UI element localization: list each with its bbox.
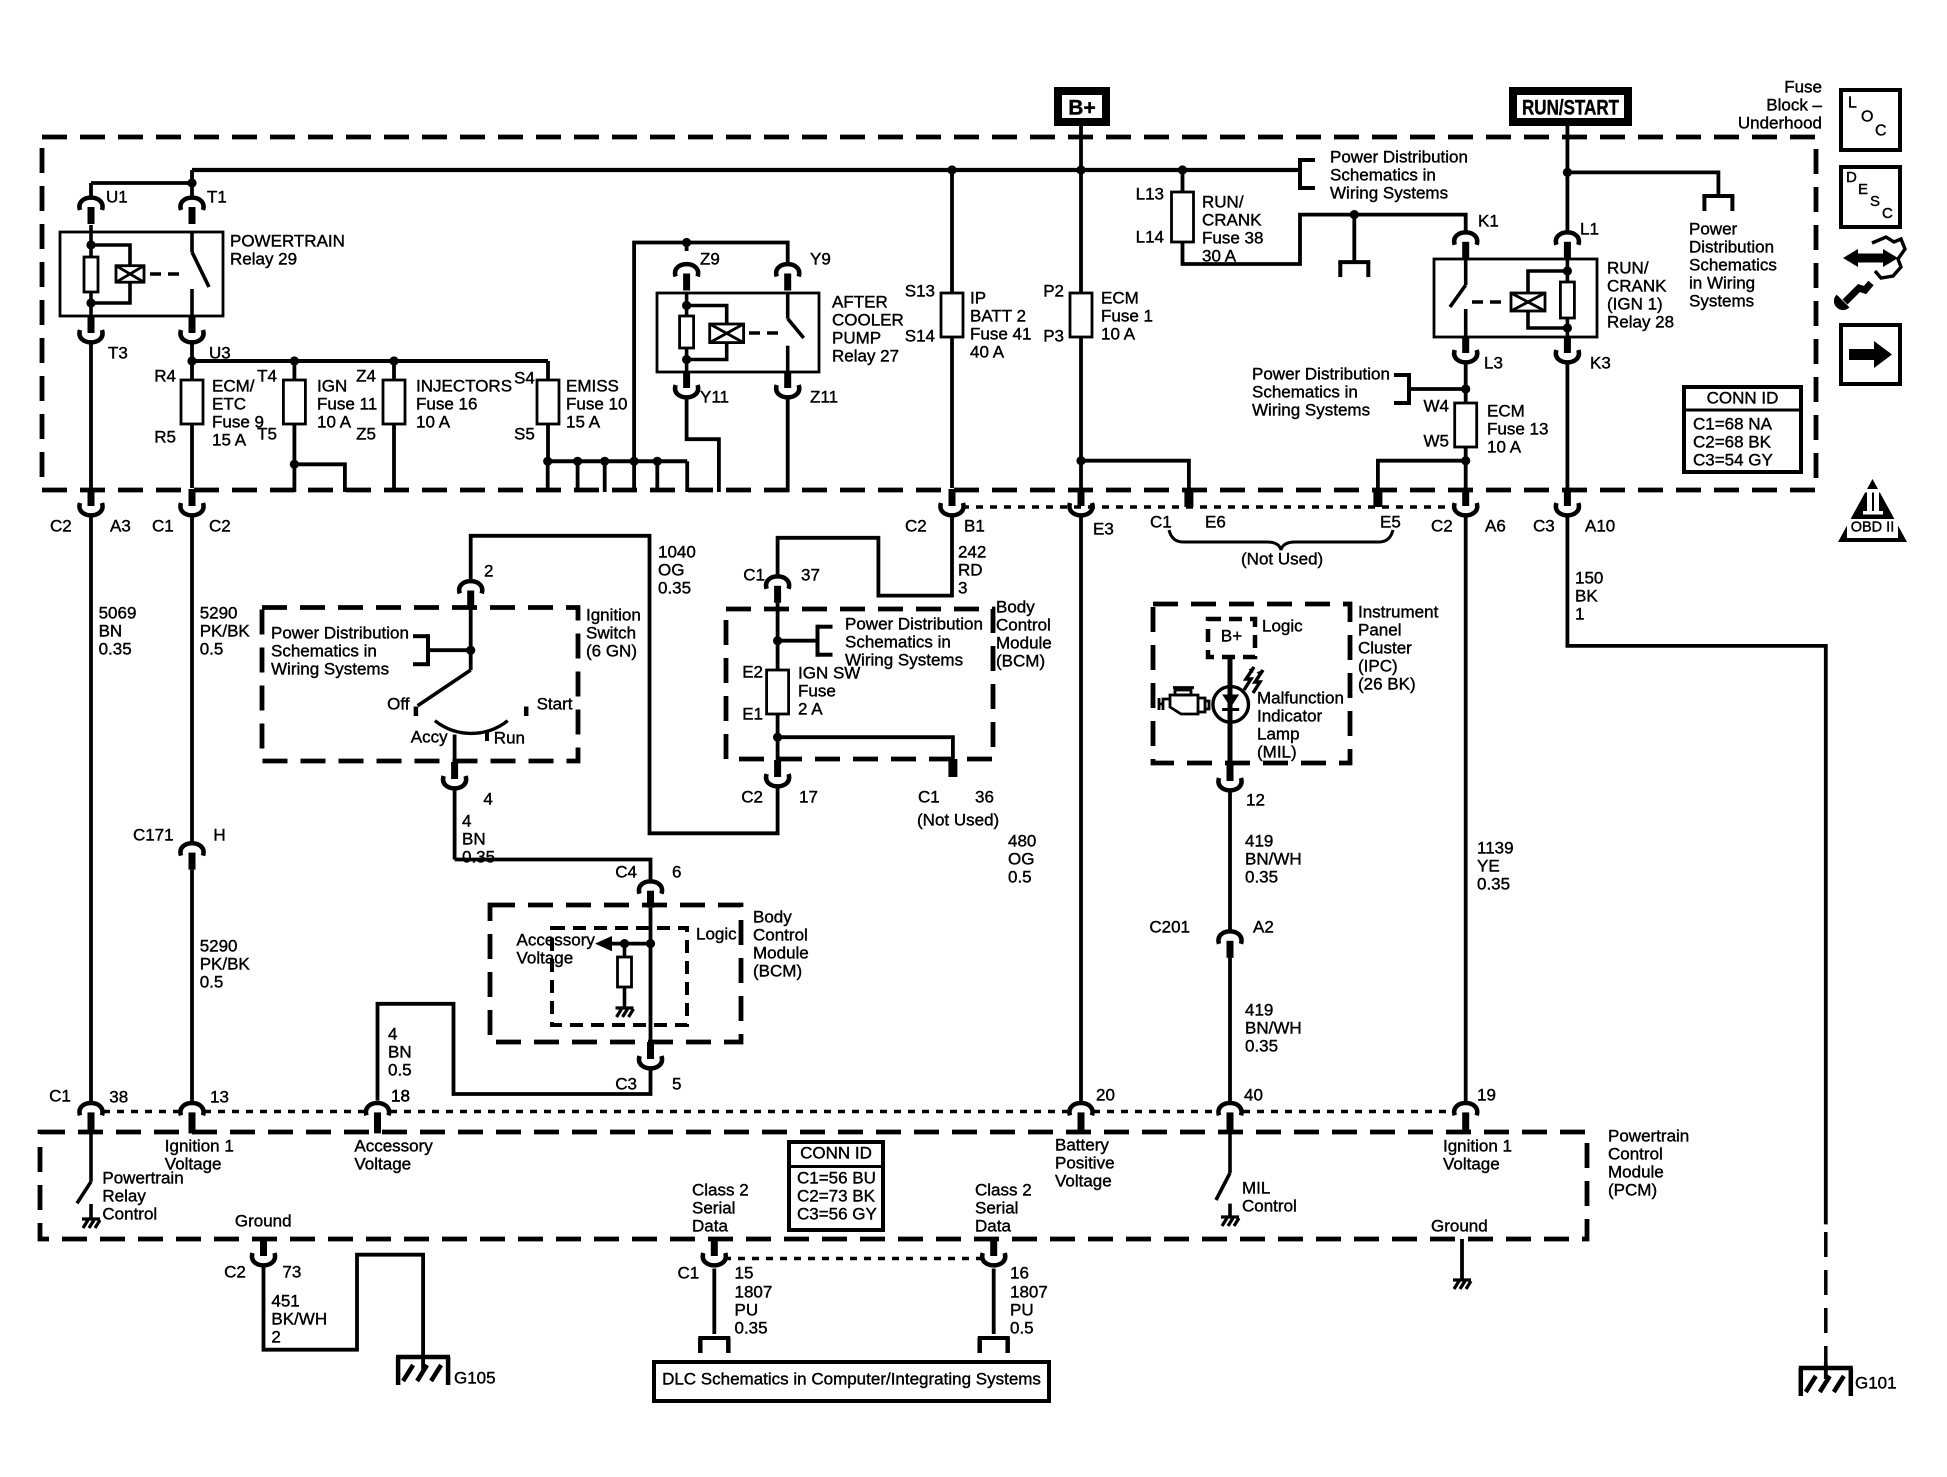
svg-text:C2: C2 — [209, 516, 231, 535]
svg-text:6: 6 — [672, 862, 681, 881]
svg-text:Powertrain: Powertrain — [102, 1168, 183, 1187]
svg-text:0.35: 0.35 — [1245, 1036, 1278, 1055]
svg-text:480: 480 — [1008, 831, 1036, 850]
svg-text:K1: K1 — [1478, 211, 1499, 230]
svg-text:10 A: 10 A — [1101, 324, 1136, 343]
svg-text:(BCM): (BCM) — [753, 961, 802, 980]
svg-text:C2: C2 — [1431, 516, 1453, 535]
svg-text:0.5: 0.5 — [1008, 867, 1032, 886]
svg-text:Logic: Logic — [1262, 616, 1303, 635]
svg-text:1807: 1807 — [1010, 1282, 1048, 1301]
svg-text:Accessory: Accessory — [517, 930, 596, 949]
svg-text:C171: C171 — [133, 825, 174, 844]
svg-text:RUN/START: RUN/START — [1522, 97, 1619, 120]
svg-text:Schematics in: Schematics in — [845, 632, 951, 651]
svg-text:POWERTRAIN: POWERTRAIN — [230, 231, 345, 250]
svg-text:Z9: Z9 — [700, 249, 720, 268]
svg-text:Schematics in: Schematics in — [271, 641, 377, 660]
svg-text:S5: S5 — [514, 424, 535, 443]
svg-text:E3: E3 — [1093, 519, 1114, 538]
svg-text:419: 419 — [1245, 1000, 1273, 1019]
svg-text:30 A: 30 A — [1202, 246, 1237, 265]
svg-text:Z5: Z5 — [356, 424, 376, 443]
svg-text:RUN/: RUN/ — [1607, 258, 1649, 277]
svg-text:BK: BK — [1575, 586, 1598, 605]
svg-text:L14: L14 — [1136, 227, 1164, 246]
svg-text:S14: S14 — [905, 326, 935, 345]
svg-text:E6: E6 — [1205, 512, 1226, 531]
svg-text:40: 40 — [1244, 1085, 1263, 1104]
svg-text:Systems: Systems — [1689, 291, 1754, 310]
svg-text:ECM: ECM — [1101, 288, 1139, 307]
svg-text:20: 20 — [1096, 1085, 1115, 1104]
svg-text:Class 2: Class 2 — [692, 1180, 749, 1199]
svg-text:BN: BN — [388, 1042, 412, 1061]
svg-text:Run: Run — [494, 728, 525, 747]
svg-text:5290: 5290 — [200, 603, 238, 622]
svg-text:A2: A2 — [1253, 917, 1274, 936]
svg-text:1139: 1139 — [1477, 838, 1514, 857]
svg-text:5290: 5290 — [200, 936, 238, 955]
svg-text:13: 13 — [210, 1087, 229, 1106]
svg-text:Block –: Block – — [1766, 95, 1822, 114]
svg-text:(26 BK): (26 BK) — [1358, 674, 1416, 693]
svg-text:10 A: 10 A — [416, 412, 451, 431]
svg-text:0.5: 0.5 — [1010, 1318, 1034, 1337]
svg-text:0.35: 0.35 — [735, 1318, 768, 1337]
svg-text:C1: C1 — [743, 565, 765, 584]
svg-text:G101: G101 — [1855, 1373, 1897, 1392]
svg-text:0.5: 0.5 — [200, 639, 224, 658]
svg-text:PK/BK: PK/BK — [200, 954, 251, 973]
svg-text:4: 4 — [462, 811, 471, 830]
svg-text:Wiring Systems: Wiring Systems — [845, 650, 963, 669]
svg-text:T5: T5 — [257, 424, 277, 443]
svg-text:O: O — [1861, 109, 1873, 126]
svg-text:73: 73 — [282, 1262, 301, 1281]
svg-text:CRANK: CRANK — [1607, 276, 1667, 295]
svg-text:PK/BK: PK/BK — [200, 621, 251, 640]
svg-text:419: 419 — [1245, 831, 1273, 850]
svg-text:(MIL): (MIL) — [1257, 742, 1297, 761]
svg-text:(Not Used): (Not Used) — [917, 810, 999, 829]
svg-text:Ground: Ground — [235, 1211, 292, 1230]
svg-text:Relay 29: Relay 29 — [230, 249, 297, 268]
svg-text:Relay 27: Relay 27 — [832, 346, 899, 365]
svg-text:C3: C3 — [615, 1074, 637, 1093]
svg-text:C2=73 BK: C2=73 BK — [797, 1186, 876, 1205]
svg-text:0.5: 0.5 — [200, 972, 224, 991]
svg-text:MIL: MIL — [1242, 1178, 1270, 1197]
svg-text:0.35: 0.35 — [1245, 867, 1278, 886]
svg-text:Module: Module — [1608, 1162, 1664, 1181]
svg-text:BATT 2: BATT 2 — [970, 306, 1026, 325]
svg-text:Data: Data — [692, 1216, 728, 1235]
svg-text:R5: R5 — [154, 427, 176, 446]
svg-text:Switch: Switch — [586, 623, 636, 642]
svg-text:Fuse 16: Fuse 16 — [416, 394, 477, 413]
svg-text:C201: C201 — [1149, 917, 1190, 936]
svg-text:Fuse 10: Fuse 10 — [566, 394, 627, 413]
svg-text:T1: T1 — [207, 187, 227, 206]
svg-text:0.5: 0.5 — [388, 1060, 412, 1079]
svg-text:Fuse: Fuse — [1784, 77, 1822, 96]
svg-text:T3: T3 — [108, 343, 128, 362]
svg-text:OG: OG — [658, 560, 684, 579]
svg-text:R4: R4 — [154, 366, 176, 385]
svg-text:ECM/: ECM/ — [212, 376, 255, 395]
svg-text:Fuse 38: Fuse 38 — [1202, 228, 1263, 247]
svg-text:1807: 1807 — [735, 1282, 773, 1301]
svg-text:Data: Data — [975, 1216, 1011, 1235]
svg-text:W4: W4 — [1424, 396, 1450, 415]
svg-text:40 A: 40 A — [970, 342, 1005, 361]
svg-text:1040: 1040 — [658, 542, 696, 561]
svg-text:451: 451 — [271, 1291, 299, 1310]
svg-text:2 A: 2 A — [798, 699, 823, 718]
svg-text:IGN SW: IGN SW — [798, 663, 860, 682]
svg-text:0.35: 0.35 — [462, 847, 495, 866]
svg-text:OG: OG — [1008, 849, 1034, 868]
svg-text:S13: S13 — [905, 281, 935, 300]
svg-text:E1: E1 — [742, 704, 763, 723]
svg-text:15 A: 15 A — [212, 430, 247, 449]
svg-text:Power: Power — [1689, 219, 1738, 238]
svg-text:C: C — [1882, 205, 1893, 222]
svg-text:Wiring Systems: Wiring Systems — [1252, 400, 1370, 419]
svg-text:Body: Body — [753, 907, 792, 926]
svg-text:D: D — [1846, 169, 1857, 186]
svg-text:Start: Start — [537, 694, 573, 713]
svg-text:COOLER: COOLER — [832, 310, 904, 329]
svg-text:150: 150 — [1575, 568, 1603, 587]
svg-text:Power Distribution: Power Distribution — [1330, 147, 1468, 166]
svg-text:ETC: ETC — [212, 394, 246, 413]
svg-text:Logic: Logic — [696, 924, 737, 943]
svg-text:Powertrain: Powertrain — [1608, 1126, 1689, 1145]
svg-text:E5: E5 — [1380, 512, 1401, 531]
svg-text:(6 GN): (6 GN) — [586, 641, 637, 660]
svg-text:PUMP: PUMP — [832, 328, 881, 347]
svg-text:Control: Control — [102, 1204, 157, 1223]
svg-text:P3: P3 — [1043, 326, 1064, 345]
svg-text:BN/WH: BN/WH — [1245, 849, 1302, 868]
svg-text:242: 242 — [958, 542, 986, 561]
svg-text:Instrument: Instrument — [1358, 602, 1439, 621]
svg-text:Fuse: Fuse — [798, 681, 836, 700]
svg-text:Z4: Z4 — [356, 366, 376, 385]
svg-text:(BCM): (BCM) — [996, 651, 1045, 670]
svg-text:Malfunction: Malfunction — [1257, 688, 1344, 707]
svg-text:CONN ID: CONN ID — [1707, 388, 1779, 407]
svg-text:Accessory: Accessory — [354, 1136, 433, 1155]
svg-text:C1: C1 — [918, 787, 940, 806]
svg-text:C1: C1 — [1150, 512, 1172, 531]
svg-text:PU: PU — [1010, 1300, 1034, 1319]
svg-text:Fuse 13: Fuse 13 — [1487, 419, 1548, 438]
svg-text:2: 2 — [271, 1327, 280, 1346]
svg-text:C2: C2 — [224, 1262, 246, 1281]
svg-text:Schematics in: Schematics in — [1252, 382, 1358, 401]
svg-text:Power Distribution: Power Distribution — [271, 623, 409, 642]
svg-text:12: 12 — [1246, 790, 1265, 809]
svg-text:2: 2 — [484, 561, 493, 580]
svg-text:in Wiring: in Wiring — [1689, 273, 1755, 292]
svg-text:Schematics: Schematics — [1689, 255, 1777, 274]
svg-text:C3=54 GY: C3=54 GY — [1693, 450, 1773, 469]
svg-text:C3: C3 — [1533, 516, 1555, 535]
svg-text:Voltage: Voltage — [1443, 1154, 1500, 1173]
svg-text:0.35: 0.35 — [658, 578, 691, 597]
svg-text:Serial: Serial — [975, 1198, 1018, 1217]
svg-text:BK/WH: BK/WH — [271, 1309, 327, 1328]
svg-text:IGN: IGN — [317, 376, 347, 395]
svg-text:C3=56 GY: C3=56 GY — [797, 1204, 877, 1223]
svg-text:(Not Used): (Not Used) — [1241, 549, 1323, 568]
svg-text:INJECTORS: INJECTORS — [416, 376, 512, 395]
svg-text:C1: C1 — [677, 1263, 699, 1282]
svg-text:Off: Off — [387, 694, 410, 713]
svg-text:Y9: Y9 — [810, 249, 831, 268]
svg-text:A3: A3 — [110, 516, 131, 535]
svg-text:C1=68 NA: C1=68 NA — [1693, 414, 1773, 433]
svg-text:17: 17 — [799, 787, 818, 806]
svg-text:C1: C1 — [49, 1086, 71, 1105]
svg-text:BN/WH: BN/WH — [1245, 1018, 1302, 1037]
svg-text:Relay 28: Relay 28 — [1607, 312, 1674, 331]
svg-text:Ignition: Ignition — [586, 605, 641, 624]
svg-text:1: 1 — [1575, 604, 1584, 623]
svg-text:Control: Control — [753, 925, 808, 944]
svg-text:Class 2: Class 2 — [975, 1180, 1032, 1199]
svg-text:Power Distribution: Power Distribution — [1252, 364, 1390, 383]
svg-text:Z11: Z11 — [810, 387, 838, 406]
svg-text:38: 38 — [109, 1087, 128, 1106]
svg-text:Fuse 1: Fuse 1 — [1101, 306, 1153, 325]
svg-text:BN: BN — [99, 621, 123, 640]
svg-text:Control: Control — [996, 615, 1051, 634]
svg-text:0.35: 0.35 — [99, 639, 132, 658]
svg-text:C2: C2 — [741, 787, 763, 806]
svg-text:Panel: Panel — [1358, 620, 1401, 639]
svg-text:Ignition 1: Ignition 1 — [1443, 1136, 1512, 1155]
svg-text:CONN ID: CONN ID — [800, 1143, 872, 1162]
svg-text:EMISS: EMISS — [566, 376, 619, 395]
svg-text:B+: B+ — [1068, 96, 1095, 119]
svg-text:W5: W5 — [1424, 431, 1450, 450]
svg-text:A10: A10 — [1585, 516, 1615, 535]
svg-text:18: 18 — [391, 1086, 410, 1105]
svg-text:15 A: 15 A — [566, 412, 601, 431]
svg-text:10 A: 10 A — [317, 412, 352, 431]
svg-text:Battery: Battery — [1055, 1135, 1109, 1154]
svg-text:(IGN 1): (IGN 1) — [1607, 294, 1663, 313]
svg-text:Cluster: Cluster — [1358, 638, 1412, 657]
svg-text:T4: T4 — [257, 366, 277, 385]
svg-text:19: 19 — [1477, 1085, 1496, 1104]
svg-text:Control: Control — [1242, 1196, 1297, 1215]
svg-text:ECM: ECM — [1487, 401, 1525, 420]
svg-text:10 A: 10 A — [1487, 437, 1522, 456]
svg-text:Lamp: Lamp — [1257, 724, 1300, 743]
svg-text:Schematics in: Schematics in — [1330, 165, 1436, 184]
svg-text:CRANK: CRANK — [1202, 210, 1262, 229]
svg-text:S4: S4 — [514, 368, 535, 387]
svg-text:BN: BN — [462, 829, 486, 848]
svg-text:4: 4 — [483, 789, 492, 808]
svg-text:C1=56 BU: C1=56 BU — [797, 1168, 876, 1187]
svg-text:Positive: Positive — [1055, 1153, 1115, 1172]
svg-text:Indicator: Indicator — [1257, 706, 1323, 725]
svg-text:S: S — [1870, 193, 1880, 210]
svg-text:Wiring Systems: Wiring Systems — [1330, 183, 1448, 202]
svg-text:B1: B1 — [964, 516, 985, 535]
svg-text:L1: L1 — [1580, 219, 1599, 238]
svg-text:OBD II: OBD II — [1851, 520, 1895, 536]
svg-text:C2=68 BK: C2=68 BK — [1693, 432, 1772, 451]
svg-text:Wiring Systems: Wiring Systems — [271, 659, 389, 678]
svg-text:Fuse 11: Fuse 11 — [317, 394, 377, 413]
svg-text:RUN/: RUN/ — [1202, 192, 1244, 211]
svg-text:K3: K3 — [1590, 353, 1611, 372]
svg-text:4: 4 — [388, 1024, 397, 1043]
svg-text:AFTER: AFTER — [832, 292, 888, 311]
svg-text:E2: E2 — [742, 662, 763, 681]
svg-text:Module: Module — [753, 943, 809, 962]
svg-text:Underhood: Underhood — [1738, 113, 1822, 132]
svg-text:P2: P2 — [1043, 281, 1064, 300]
svg-text:Ignition 1: Ignition 1 — [165, 1136, 234, 1155]
svg-text:Serial: Serial — [692, 1198, 735, 1217]
svg-text:L3: L3 — [1484, 353, 1503, 372]
svg-text:Voltage: Voltage — [517, 948, 574, 967]
svg-text:PU: PU — [735, 1300, 759, 1319]
svg-text:Ground: Ground — [1431, 1216, 1488, 1235]
svg-text:L13: L13 — [1136, 184, 1164, 203]
svg-text:U1: U1 — [106, 187, 128, 206]
svg-text:L: L — [1848, 95, 1857, 112]
svg-text:Voltage: Voltage — [354, 1154, 411, 1173]
svg-text:YE: YE — [1477, 856, 1500, 875]
svg-text:Body: Body — [996, 597, 1035, 616]
svg-text:36: 36 — [975, 787, 994, 806]
svg-text:Control: Control — [1608, 1144, 1663, 1163]
svg-text:H: H — [213, 825, 225, 844]
svg-text:C2: C2 — [905, 516, 927, 535]
svg-text:C2: C2 — [50, 516, 72, 535]
svg-text:16: 16 — [1010, 1263, 1029, 1282]
svg-text:Distribution: Distribution — [1689, 237, 1774, 256]
svg-text:3: 3 — [958, 578, 967, 597]
svg-text:37: 37 — [801, 565, 820, 584]
svg-text:(IPC): (IPC) — [1358, 656, 1398, 675]
svg-text:C: C — [1875, 123, 1887, 140]
svg-text:5069: 5069 — [99, 603, 137, 622]
svg-text:5: 5 — [672, 1074, 681, 1093]
svg-text:RD: RD — [958, 560, 983, 579]
svg-text:C4: C4 — [615, 862, 637, 881]
svg-text:G105: G105 — [454, 1368, 496, 1387]
svg-text:C1: C1 — [152, 516, 174, 535]
svg-text:Y11: Y11 — [700, 387, 729, 406]
svg-text:Module: Module — [996, 633, 1052, 652]
svg-text:B+: B+ — [1221, 626, 1242, 645]
svg-text:Voltage: Voltage — [1055, 1171, 1112, 1190]
svg-text:(PCM): (PCM) — [1608, 1180, 1657, 1199]
svg-text:Power Distribution: Power Distribution — [845, 614, 983, 633]
svg-text:DLC Schematics in Computer/Int: DLC Schematics in Computer/Integrating S… — [662, 1369, 1041, 1388]
svg-text:Relay: Relay — [102, 1186, 146, 1205]
svg-text:A6: A6 — [1485, 516, 1506, 535]
svg-text:E: E — [1858, 181, 1868, 198]
svg-text:15: 15 — [735, 1263, 754, 1282]
svg-text:Fuse 41: Fuse 41 — [970, 324, 1031, 343]
svg-text:Accy: Accy — [411, 727, 448, 746]
svg-text:0.35: 0.35 — [1477, 874, 1510, 893]
svg-text:IP: IP — [970, 288, 986, 307]
